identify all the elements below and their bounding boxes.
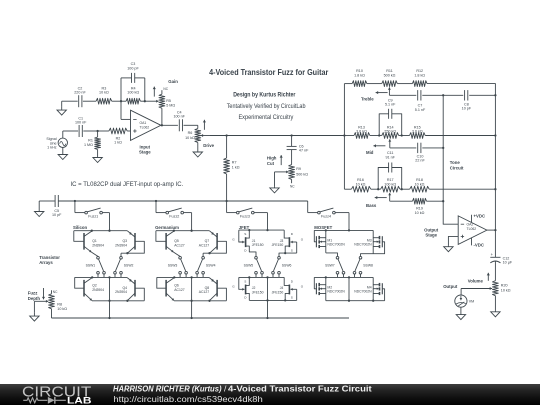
svg-text:NC: NC [53, 290, 58, 294]
svg-text:2N3904: 2N3904 [115, 290, 127, 294]
svg-text:Treble: Treble [361, 97, 374, 102]
R17 adjust arrow [375, 196, 387, 199]
OA2 label [467, 222, 477, 231]
svg-text:10 pF: 10 pF [52, 213, 62, 217]
wire R14 to R15 [399, 135, 410, 137]
op-amp input bus [443, 95, 458, 224]
C12 label [503, 256, 513, 264]
svg-text:100 pF: 100 pF [127, 66, 139, 70]
svg-text:2N3904: 2N3904 [92, 288, 104, 292]
MOSFET array center node [314, 276, 373, 278]
R11 adjust arrow [376, 91, 388, 94]
Silicon array top rail [74, 230, 127, 232]
JFET array top rail [239, 229, 284, 231]
potentiometer R8 (Fuzz Depth) [49, 290, 55, 318]
Input Stage label [139, 144, 151, 154]
svg-text:1 kΩ: 1 kΩ [232, 165, 240, 169]
resistor R10 [352, 81, 367, 87]
Output label [443, 284, 458, 289]
ground below R20 [491, 311, 500, 317]
svg-text:LAB: LAB [67, 395, 91, 405]
svg-text:220 nF: 220 nF [74, 90, 86, 94]
R4 label [127, 86, 139, 94]
R18 label [415, 178, 425, 186]
R1 label [84, 139, 93, 147]
wire R16 ends [344, 188, 380, 190]
switch SSW2 [114, 256, 134, 277]
resistor R3 [96, 98, 112, 104]
svg-text:Output: Output [443, 284, 458, 289]
svg-text:Volume: Volume [468, 278, 484, 283]
svg-text:NC: NC [163, 87, 168, 91]
svg-text:AC127: AC127 [199, 243, 209, 247]
wire R18 to feedback bus [429, 188, 496, 190]
svg-text:5 MΩ: 5 MΩ [166, 104, 175, 108]
potentiometer R11 (Treble) [382, 81, 398, 87]
mid wiper wire [390, 147, 417, 149]
Drive label [203, 143, 214, 148]
svg-text:G: G [301, 237, 304, 241]
svg-text:5.1 nF: 5.1 nF [415, 108, 426, 112]
wire R4 to node C [140, 100, 144, 102]
voltage source V1 (signal, sine 1 kHz) [58, 131, 67, 148]
ground below R1 [93, 150, 102, 163]
capacitor C12 [490, 252, 500, 281]
wire OA1 out to C4 [161, 124, 178, 126]
switch SSW5 [244, 256, 264, 277]
R2 label [114, 137, 122, 145]
resistor R13 [354, 133, 370, 139]
C10 label [415, 154, 425, 162]
svg-text:Arrays: Arrays [39, 260, 53, 265]
svg-text:D: D [291, 280, 294, 284]
switch SSW4 [196, 256, 216, 277]
wire R11 to R12 [397, 83, 412, 85]
svg-text:91 nF: 91 nF [385, 156, 395, 160]
transistor Q2 (2N3904) [75, 277, 104, 300]
svg-text:Fuzz1: Fuzz1 [88, 215, 98, 219]
svg-text:Depth: Depth [28, 296, 41, 301]
svg-text:10 kΩ: 10 kΩ [99, 90, 109, 94]
capacitor C3 [121, 73, 145, 101]
transistor Q4 (2N3904) [115, 278, 144, 302]
svg-text:10 kΩ: 10 kΩ [415, 211, 425, 215]
svg-text:Germanium: Germanium [155, 225, 179, 230]
Gain label [168, 79, 178, 84]
High Cut label [267, 156, 277, 166]
svg-text:1.8 kΩ: 1.8 kΩ [354, 73, 365, 77]
ground left of C2 [57, 101, 66, 115]
potentiometer R5 (Gain) [159, 90, 165, 125]
IC note [71, 181, 184, 188]
transistor J2 (JFE150) [232, 277, 263, 300]
wire node A to R1 [97, 131, 99, 137]
svg-text:+VDC: +VDC [474, 214, 486, 219]
R19 label [415, 207, 425, 215]
Mid label [366, 150, 374, 155]
R6 label [185, 131, 195, 140]
svg-text:Stage: Stage [425, 233, 437, 238]
Germanium array title [155, 225, 179, 230]
capacitor C10 [418, 143, 421, 153]
R17 wiper [388, 193, 391, 201]
resistor R19 [413, 198, 427, 204]
wire node C to R5 wiper [145, 100, 159, 103]
R8 NC terminal [53, 290, 58, 294]
svg-text:NDC7002N: NDC7002N [327, 290, 345, 294]
wire R7 to fuzz bus [226, 174, 228, 201]
R7 label [232, 161, 240, 170]
svg-text:http://circuitlab.com/cs539ecv: http://circuitlab.com/cs539ecv4dk8h [113, 393, 263, 403]
tone input rail [343, 84, 345, 190]
svg-text:S: S [291, 296, 293, 300]
R8 adjust arrow [42, 288, 45, 299]
switch SSW6 [272, 256, 292, 277]
svg-text:10 kΩ: 10 kΩ [57, 307, 67, 311]
footer bar [0, 384, 540, 405]
svg-text:Gain: Gain [168, 79, 178, 84]
Volume label [468, 278, 484, 283]
R6 adjust arrow [203, 120, 206, 130]
svg-text:Transistor: Transistor [39, 255, 60, 260]
wire R17 to R18 [400, 188, 410, 190]
Output Stage label [424, 227, 439, 237]
svg-text:S: S [244, 280, 246, 284]
resistor R16 [351, 186, 370, 192]
OA2 + input wire [448, 236, 458, 245]
C11 label [385, 151, 395, 159]
transistor M4 (NDC7002N) [354, 277, 384, 301]
svg-text:500 kΩ: 500 kΩ [384, 73, 396, 77]
capacitor C2 [79, 95, 82, 107]
wire to R10 [344, 83, 352, 85]
svg-text:G: G [232, 285, 235, 289]
switch SSW3 [168, 256, 188, 277]
svg-text:Fuzz2: Fuzz2 [169, 215, 179, 219]
MOSFET array title [314, 225, 332, 230]
MOSFET array bottom node [326, 277, 385, 301]
svg-text:500 kΩ: 500 kΩ [296, 173, 308, 177]
svg-text:10 pF: 10 pF [462, 107, 472, 111]
ground below R9 wiper [270, 186, 279, 193]
C4 label [173, 110, 185, 118]
node C junction [144, 100, 146, 102]
Germanium array top rail [156, 230, 209, 232]
voltmeter VM [455, 295, 467, 307]
svg-text:HARRISON RICHTER (Kurtus): HARRISON RICHTER (Kurtus) [113, 384, 222, 394]
svg-text:Tentatively Verified by Circui: Tentatively Verified by CircuitLab [227, 104, 306, 110]
switch SSW7 [325, 256, 345, 277]
fuzz switch bus [59, 200, 308, 202]
R11 label [384, 69, 396, 77]
R9 adjust arrow [280, 155, 283, 165]
OA2 +VDC pin [472, 214, 486, 223]
switch Fuzz2 [155, 200, 192, 231]
svg-text:-VDC: -VDC [474, 242, 485, 247]
svg-text:OA2: OA2 [467, 222, 474, 226]
svg-text:1.8 kΩ: 1.8 kΩ [414, 73, 425, 77]
subtitle 1 [233, 91, 296, 98]
feedback bus [494, 95, 496, 230]
svg-text:Mid: Mid [366, 150, 374, 155]
subtitle 3 [238, 115, 293, 121]
svg-text:TL062: TL062 [140, 125, 150, 129]
R3 label [99, 86, 109, 94]
wire R3 to node B [112, 100, 121, 102]
svg-text:JFE150: JFE150 [272, 243, 284, 247]
node A junction [96, 130, 98, 132]
JFET array bottom node [249, 277, 296, 319]
transistor M3 (NDC7002N) [354, 230, 384, 256]
svg-text:Bass: Bass [366, 203, 377, 208]
potentiometer R20 (Volume) [493, 281, 499, 311]
svg-text:Fuzz: Fuzz [28, 291, 38, 296]
CircuitLab logo resistor-diode glyph [23, 397, 66, 404]
R6 wiper [201, 134, 210, 137]
svg-text:OA1: OA1 [140, 121, 147, 125]
capacitor C7 [418, 90, 421, 100]
svg-text:10 kΩ: 10 kΩ [415, 182, 425, 186]
node B junction [120, 100, 122, 102]
svg-text:Design by Kurtus Richter: Design by Kurtus Richter [233, 91, 296, 98]
R9 NC terminal [290, 185, 295, 189]
svg-text:10 kΩ: 10 kΩ [185, 136, 195, 140]
svg-text:S: S [291, 248, 293, 252]
svg-text:100 nF: 100 nF [173, 114, 185, 118]
Germanium array center node [157, 276, 210, 278]
R16 label [356, 178, 366, 186]
node F junction [290, 134, 292, 136]
svg-text:R20: R20 [501, 284, 508, 288]
wire R15 to feedback bus [425, 134, 496, 136]
ground left of C5 [35, 201, 55, 217]
R17 label [384, 178, 396, 186]
svg-text:R7: R7 [232, 161, 237, 165]
C6 label [299, 144, 309, 152]
resistor R7 [224, 158, 230, 174]
svg-text:TL062: TL062 [467, 227, 477, 231]
node G junction [442, 94, 444, 96]
svg-text:AC127: AC127 [174, 243, 184, 247]
svg-text:250 kΩ: 250 kΩ [384, 130, 396, 134]
svg-text:3.6 kΩ: 3.6 kΩ [356, 130, 367, 134]
C2 label [74, 86, 86, 94]
OA2 -VDC pin [472, 238, 485, 248]
resistor R2 [109, 128, 127, 134]
svg-text:100 nF: 100 nF [75, 121, 87, 125]
svg-text:R6: R6 [188, 131, 193, 135]
svg-text:/: / [224, 384, 227, 394]
treble wiper wire [389, 94, 416, 96]
svg-text:1 kΩ: 1 kΩ [114, 141, 122, 145]
capacitor C5 [55, 195, 58, 207]
svg-text:2N3904: 2N3904 [92, 243, 104, 247]
R11 wiper [388, 87, 391, 95]
R20 label [501, 284, 511, 293]
wire C1 to node A [83, 130, 97, 132]
potentiometer R9 (High Cut) [289, 165, 295, 184]
svg-text:4-Voiced Transistor Fuzz Circu: 4-Voiced Transistor Fuzz Circuit [228, 384, 372, 394]
wire node A to R2 [98, 130, 109, 132]
svg-text:22 nF: 22 nF [415, 159, 425, 163]
title [209, 67, 329, 77]
R10 label [354, 69, 365, 77]
R14 adjust arrow [373, 144, 385, 147]
wire node B to R4 [121, 100, 126, 102]
wire node B to op-amp - [121, 101, 131, 119]
wire R2 to op-amp + [127, 130, 130, 132]
svg-text:G: G [232, 237, 235, 241]
wire C2 to R3 [83, 100, 96, 102]
svg-text:SSW2: SSW2 [124, 264, 134, 268]
R14 wiper [388, 139, 391, 148]
svg-text:100 kΩ: 100 kΩ [127, 90, 139, 94]
R8 wiper [34, 300, 48, 312]
svg-text:2N3904: 2N3904 [115, 243, 127, 247]
R12 label [414, 69, 425, 77]
svg-text:AC127: AC127 [174, 288, 184, 292]
svg-text:1 kHz: 1 kHz [47, 145, 57, 149]
R5 adjust arrow [153, 87, 156, 97]
C7 label [415, 104, 426, 112]
MOSFET array top rail [314, 229, 373, 231]
wire node E to R7 [226, 136, 228, 159]
R14 label [384, 126, 396, 134]
transistor J4 (JFE150) [272, 277, 304, 301]
JFET array center node [239, 276, 284, 278]
svg-text:Silicon: Silicon [73, 225, 87, 230]
capacitor C6 [287, 146, 297, 149]
svg-text:+: + [491, 252, 494, 257]
C5 label [52, 209, 62, 217]
wire C7 to node G [422, 94, 443, 96]
svg-text:SSW3: SSW3 [168, 264, 178, 268]
svg-text:10 kΩ: 10 kΩ [356, 182, 366, 186]
svg-text:S: S [244, 232, 246, 236]
resistor R4 [126, 98, 140, 104]
transistor M2 (NDC7002N) [314, 277, 345, 300]
wire V1 to C1 [63, 130, 78, 132]
ground below R6 [193, 148, 202, 158]
wire C6 to R9 [291, 150, 293, 165]
svg-text:MOSFET: MOSFET [314, 225, 332, 230]
ground below V1 [58, 148, 67, 160]
capacitor C4 [179, 119, 182, 131]
svg-text:D: D [291, 232, 294, 236]
node D junction [161, 124, 163, 126]
svg-text:4-Voiced Transistor Fuzz for G: 4-Voiced Transistor Fuzz for Guitar [209, 67, 329, 77]
svg-text:JFE150: JFE150 [272, 290, 284, 294]
svg-text:NC: NC [290, 185, 295, 189]
transistor J1 (JFE150) [232, 230, 263, 256]
VM label [469, 300, 475, 304]
wire node G to C8 [443, 94, 463, 96]
svg-text:1 MΩ: 1 MΩ [84, 143, 93, 147]
switch Fuzz1 [74, 200, 110, 231]
capacitor C11 [377, 163, 403, 191]
transistor Q3 (2N3904) [115, 231, 144, 257]
potentiometer R17 (Bass) [381, 186, 400, 192]
potentiometer R14 (Mid) [382, 133, 399, 139]
R9 label [296, 167, 308, 177]
wire R12 to feedback bus [427, 84, 495, 96]
transistor Q8 (AC127) [199, 278, 227, 302]
switch SSW1 [86, 256, 106, 277]
svg-text:47 nF: 47 nF [299, 149, 309, 153]
svg-text:SSW6: SSW6 [282, 264, 292, 268]
wire C8 to feedback bus [469, 94, 495, 96]
subtitle 2 [227, 104, 306, 110]
Silicon array center node [75, 276, 128, 278]
wire ground to C2 [62, 100, 78, 102]
wire to C12 [494, 230, 496, 257]
transistor Q7 (AC127) [199, 231, 227, 257]
potentiometer R6 (Drive) [195, 129, 201, 148]
Germanium array bottom node [174, 277, 226, 319]
Silicon array bottom node [92, 277, 144, 319]
C8 label [462, 102, 472, 110]
svg-text:NDC7002N: NDC7002N [354, 243, 372, 247]
resistor R12 [412, 81, 427, 87]
svg-text:Fuzz3: Fuzz3 [240, 215, 250, 219]
ground below OA2 + [444, 245, 453, 252]
svg-text:G: G [301, 285, 304, 289]
Fuzz Depth label [28, 291, 41, 301]
Bass label [366, 203, 377, 208]
capacitor C8 [465, 90, 468, 100]
svg-text:10 kΩ: 10 kΩ [501, 289, 511, 293]
svg-text:Cut: Cut [267, 161, 275, 166]
svg-text:Fuzz4: Fuzz4 [321, 215, 331, 219]
svg-text:D: D [244, 248, 247, 252]
op-amp OA1 [131, 110, 161, 140]
ground below R8 wiper [30, 312, 39, 321]
svg-text:D: D [244, 296, 247, 300]
op-amp OA2 [458, 216, 487, 245]
svg-text:Tone: Tone [450, 160, 461, 165]
wire C10 to op-amp bus [422, 147, 444, 149]
svg-text:R9: R9 [296, 167, 301, 171]
svg-text:Circuit: Circuit [450, 165, 464, 170]
OA1 label [140, 121, 150, 130]
R20 wiper [461, 287, 492, 295]
C3 label [127, 62, 139, 70]
svg-text:SSW5: SSW5 [244, 264, 254, 268]
svg-text:SSW7: SSW7 [325, 264, 335, 268]
svg-text:5.1 nF: 5.1 nF [385, 103, 396, 107]
Transistor Arrays label [39, 255, 60, 265]
svg-text:R8: R8 [57, 302, 62, 306]
resistor R15 [410, 133, 426, 139]
svg-text:JFE150: JFE150 [252, 290, 264, 294]
svg-text:Stage: Stage [139, 150, 151, 155]
R8 label [57, 302, 67, 311]
svg-text:10 µF: 10 µF [503, 261, 513, 265]
transistor Q1 (2N3904) [74, 231, 104, 257]
ground below VM [456, 307, 465, 319]
capacitor C9 [378, 109, 403, 137]
C9 label [385, 98, 396, 106]
Silicon array title [73, 225, 87, 230]
transistor Q5 (AC127) [156, 231, 185, 257]
R20 adjust arrow [487, 273, 490, 281]
wire drive bus [210, 135, 344, 137]
R5 label [166, 99, 175, 107]
bass wiper wire [391, 200, 413, 202]
transistor M1 (NDC7002N) [314, 230, 345, 256]
svg-text:VM: VM [469, 300, 475, 304]
wire R19 to op-amp bus [427, 200, 445, 202]
